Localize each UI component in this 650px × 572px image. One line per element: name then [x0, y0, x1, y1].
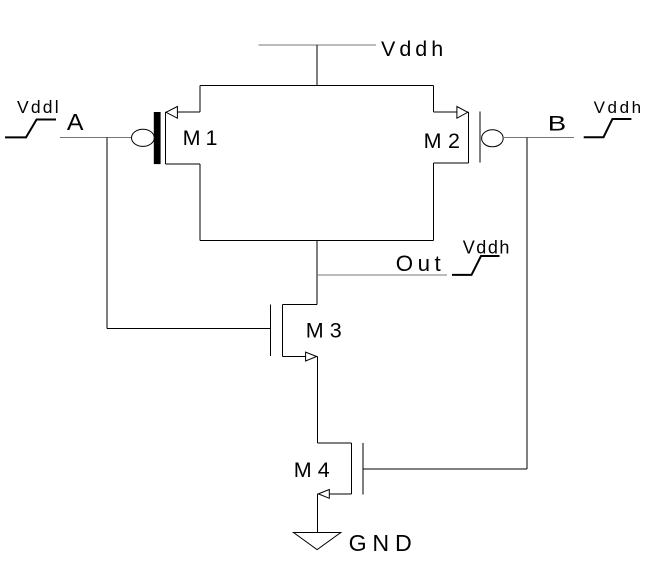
M2 channel line	[467, 112, 469, 163]
M3 source arrow	[306, 352, 317, 361]
wire node Out tap	[317, 274, 447, 276]
svg-text:M4: M4	[294, 458, 336, 482]
wire M3 source lead	[282, 356, 317, 358]
wire input A to M1 gate bubble	[60, 137, 132, 139]
M1 thick gate bar	[154, 112, 161, 164]
input waveform symbol Vddh at B	[584, 119, 632, 137]
wire M2 drain vertical to output rail	[432, 163, 434, 241]
wire node B down to M4 gate	[526, 138, 528, 470]
svg-text:A: A	[67, 109, 84, 135]
svg-text:GND: GND	[349, 530, 418, 556]
svg-text:B: B	[548, 112, 566, 136]
wire M4 gate lead to node B	[364, 468, 527, 470]
input waveform symbol Vddl rising edge	[5, 120, 56, 138]
output waveform symbol Vddh at Out	[452, 256, 500, 275]
svg-text:Vddl: Vddl	[17, 97, 61, 117]
svg-text:M1: M1	[183, 126, 223, 150]
M4 channel line	[351, 443, 353, 494]
wire output rail M1/M2 drains	[200, 240, 433, 242]
M3 channel line	[281, 304, 283, 356]
svg-text:M3: M3	[306, 318, 348, 342]
wire M4 source down to ground	[316, 494, 318, 533]
ground symbol	[294, 533, 341, 550]
wire M3 source down to M4 drain	[316, 357, 318, 443]
wire M1 drain vertical to output rail	[199, 164, 201, 241]
svg-text:Vddh: Vddh	[594, 98, 644, 117]
wire Vddh stub down to top rail	[316, 45, 318, 86]
wire output rail down to M3 drain	[316, 241, 318, 305]
M1 source arrow	[166, 107, 177, 119]
svg-text:M2: M2	[424, 129, 467, 153]
M2 gate inversion bubble	[482, 130, 504, 147]
wire top rail M1/M2 sources	[200, 85, 433, 87]
wire M3 drain lead	[282, 304, 317, 306]
M2 source arrow	[457, 107, 468, 119]
wire M4 source lead	[318, 493, 352, 495]
svg-text:Out: Out	[396, 251, 445, 276]
transistor M1 (PMOS)	[132, 86, 200, 241]
wire M4 drain lead	[317, 442, 351, 444]
wire node A to M3 gate	[107, 328, 270, 330]
M3 gate line	[269, 304, 271, 356]
wire M1 source vertical to top rail	[199, 86, 201, 113]
wire M2 source vertical to top rail	[432, 86, 434, 113]
transistor M4 (NMOS, mirrored)	[317, 443, 526, 498]
transistor M2 (PMOS)	[433, 86, 503, 241]
M1 gate inversion bubble	[132, 129, 155, 146]
wire node A down	[106, 138, 108, 329]
M2 gate line	[479, 112, 481, 163]
wire M2 source lead	[433, 111, 468, 113]
M1 channel line	[164, 112, 166, 164]
M4 source arrow	[318, 490, 329, 499]
M4 gate line	[362, 443, 364, 494]
wire M1 drain lead	[165, 163, 200, 165]
transistor M3 (NMOS)	[270, 304, 317, 361]
wire M1 source lead	[165, 111, 200, 113]
svg-text:Vddh: Vddh	[463, 238, 511, 258]
wire M2 drain lead	[433, 162, 468, 164]
power Vddh supply stub wire	[259, 44, 377, 46]
svg-text:Vddh: Vddh	[381, 37, 447, 61]
wire node B from M2 bubble	[503, 137, 574, 139]
